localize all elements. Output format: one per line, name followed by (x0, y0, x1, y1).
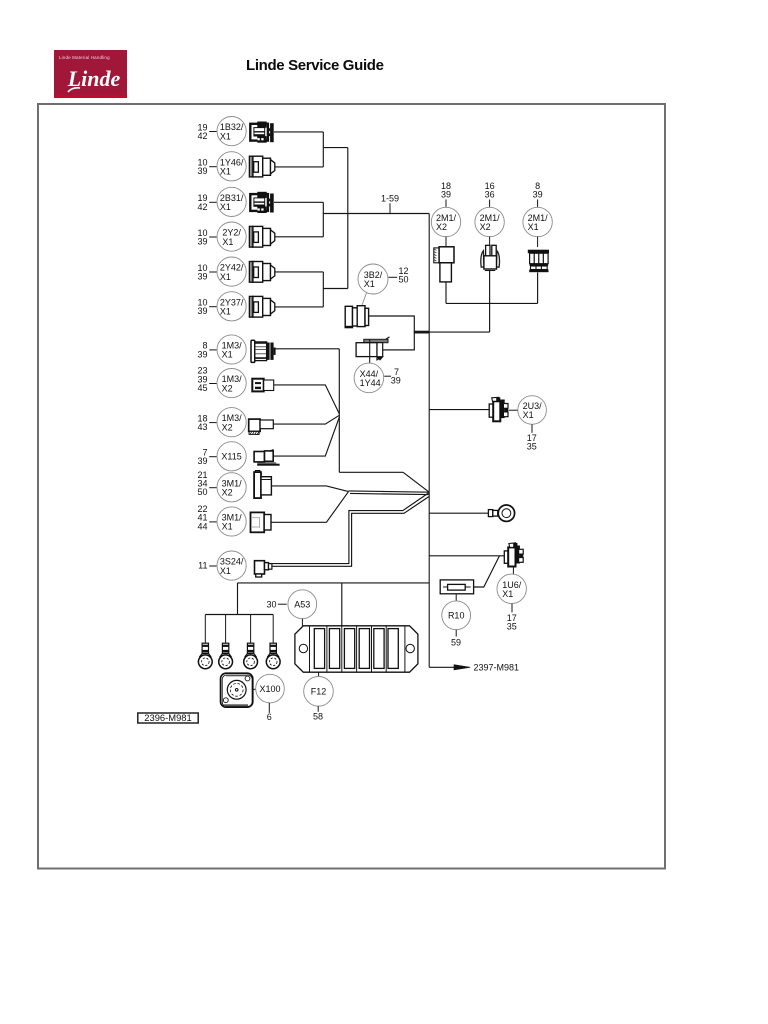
svg-text:39: 39 (197, 272, 207, 282)
wire 3M1/X2 (272, 486, 349, 492)
lamp terminal 3 (244, 643, 258, 668)
connector icon 2Y2/X1 (249, 226, 274, 247)
fuse element 1 (314, 629, 324, 669)
wire drop lamp 4 (272, 615, 274, 644)
svg-text:X2: X2 (222, 488, 233, 498)
connector icon 2M1/X1 right (528, 250, 549, 273)
connector icon 2B31/X1 (250, 192, 273, 213)
connector circle 2Y42/X1 (217, 257, 246, 286)
svg-text:35: 35 (527, 442, 537, 452)
svg-text:6: 6 (267, 712, 272, 722)
svg-text:X1: X1 (220, 167, 231, 177)
fuse element 5 (374, 629, 384, 669)
connector circle X100 (256, 674, 285, 703)
fuse box inner dividers (310, 626, 405, 672)
wire 2U3 icon to circle (508, 409, 518, 411)
left bus vertical (347, 148, 349, 289)
wire 2Y2 to bus (275, 236, 324, 238)
pin numbers for 2M1 #3 (533, 181, 543, 207)
wire drop lamp 2 (225, 615, 227, 644)
connector icon 3M1/X2 (254, 471, 271, 499)
pin number R10 59 (451, 630, 461, 648)
diagram frame (38, 104, 665, 869)
connector circle 1U6/X1 (497, 574, 526, 603)
wire 2M1#2 down (489, 271, 491, 332)
pin numbers for X115 (197, 448, 216, 467)
pin numbers for 2M1 #1 (441, 181, 451, 207)
connector circle 1M3/X2 a (217, 369, 246, 398)
component circle F12 (304, 677, 334, 707)
pin numbers X44 7/39 (384, 367, 401, 386)
svg-text:X1: X1 (220, 272, 231, 282)
connector icon 1Y46/X1 (249, 156, 274, 177)
wire X115 diagonal (273, 417, 340, 456)
harness 3S24 double line (272, 493, 429, 564)
wire 1U6 icon down (512, 567, 514, 575)
svg-text:39: 39 (197, 456, 207, 466)
wire drop to lamp bus (237, 583, 239, 615)
logo Linde script (63, 66, 125, 92)
wire 1Y46 to bus (275, 166, 324, 168)
svg-text:X1: X1 (222, 237, 233, 247)
connector icon X44/1Y44 (356, 337, 389, 363)
svg-text:2397-M981: 2397-M981 (474, 663, 520, 673)
svg-text:X115: X115 (221, 452, 241, 462)
wire bus to 2U3 (429, 409, 489, 411)
fuse element 4 (359, 629, 369, 669)
svg-text:50: 50 (399, 275, 409, 285)
svg-text:39: 39 (197, 349, 207, 359)
svg-text:X2: X2 (222, 422, 233, 432)
trunk horizontal y472 (339, 471, 403, 473)
connector icon 1B32/X1 (250, 122, 273, 143)
leader 3B2 circle to icon (362, 293, 367, 305)
label box 2396-M981 (138, 712, 198, 723)
Linde logo red box (54, 50, 127, 95)
wire 1B32 to bus (274, 131, 323, 133)
wire drop lamp 3 (250, 615, 252, 644)
pin numbers 2U3 17/35 (527, 424, 537, 451)
svg-text:39: 39 (533, 190, 543, 200)
connector icon 2M1/X2 middle (481, 245, 500, 270)
connector icon 3M1/X1 (251, 512, 272, 532)
svg-text:39: 39 (441, 190, 451, 200)
pin numbers for 3S24/X1 (198, 560, 216, 570)
pin numbers 1U6 17/35 (507, 604, 517, 632)
fuse element 2 (329, 629, 339, 669)
connector circle 3M1/X2 (217, 473, 246, 502)
svg-text:X1: X1 (364, 279, 375, 289)
title Linde Service Guide (246, 57, 384, 74)
wire A53 to fuse box (301, 619, 303, 626)
pin numbers for 3M1/X1 (197, 504, 216, 531)
wire y583 horizontal (238, 582, 430, 584)
connector icon 1M3/X1 (251, 340, 276, 362)
svg-text:X2: X2 (436, 222, 447, 232)
wire 2M1 bottom horizontal (446, 302, 538, 304)
harness double line 3M1 to bus (349, 491, 430, 492)
connector icon 2M1/X2 left (434, 247, 454, 282)
connector circle 1Y46/X1 (217, 152, 246, 181)
wire 2Y37 to bus (275, 306, 324, 308)
wire 1M3/X1 to trunk (276, 348, 340, 350)
trunk vertical x339 (338, 349, 340, 473)
wire 2M1#3 down (537, 273, 539, 304)
connector circle 1B32/X1 (217, 117, 246, 146)
svg-text:X2: X2 (222, 383, 233, 393)
connector icon 2Y37/X1 (249, 296, 274, 317)
fuse element 3 (344, 629, 354, 669)
svg-text:39: 39 (197, 166, 207, 176)
pin numbers for 2Y37/X1 (197, 298, 216, 317)
wire 1-59 horizontal (323, 213, 429, 215)
wire X44 to junction (383, 349, 414, 351)
svg-text:A53: A53 (294, 599, 310, 609)
wire circle to icon 2M1 #1 (445, 237, 447, 248)
pin numbers for 1Y46/X1 (197, 158, 216, 177)
connector icon 3B2/X1 (345, 306, 368, 328)
svg-text:X100: X100 (259, 684, 280, 694)
svg-text:1Y44: 1Y44 (360, 378, 381, 388)
pin numbers for 2M1 #2 (485, 181, 495, 207)
connector circle 2M1 #2 (475, 207, 504, 236)
svg-text:39: 39 (197, 237, 207, 247)
wire bus to ring terminal (429, 512, 488, 514)
svg-text:R10: R10 (448, 611, 465, 621)
ring terminal (488, 505, 514, 521)
svg-text:39: 39 (391, 376, 401, 386)
connector circle 3S24/X1 (217, 551, 246, 580)
svg-text:36: 36 (485, 190, 495, 200)
wire R10 down (455, 594, 457, 601)
svg-text:58: 58 (313, 712, 323, 722)
svg-text:X1: X1 (528, 222, 539, 232)
svg-text:X1: X1 (220, 202, 231, 212)
pin number X100 6 (267, 703, 272, 722)
pin numbers for 2B31/X1 (197, 193, 216, 212)
svg-text:X1: X1 (220, 131, 231, 141)
arrow 2397-M981 (454, 663, 519, 673)
connector icon 3S24/X1 (255, 561, 272, 577)
pin numbers for 2Y2/X1 (197, 228, 216, 247)
svg-text:35: 35 (507, 621, 517, 631)
svg-text:30: 30 (266, 599, 276, 609)
connector circle 2B31/X1 (217, 187, 246, 216)
wire drop lamp 1 (204, 615, 206, 644)
svg-text:45: 45 (197, 383, 207, 393)
wire 3B2 to junction (369, 316, 415, 350)
svg-text:F12: F12 (311, 687, 327, 697)
connector circle X115 (217, 442, 246, 471)
Linde logo red underline (54, 95, 127, 98)
pin number F12 58 (313, 706, 323, 721)
svg-text:42: 42 (197, 202, 207, 212)
component circle R10 (442, 601, 471, 630)
wire fuse box to F12 (318, 672, 320, 676)
svg-text:1-59: 1-59 (381, 194, 399, 204)
logo script swoosh (54, 50, 127, 95)
svg-text:X1: X1 (222, 350, 233, 360)
svg-text:X1: X1 (502, 589, 513, 599)
lamp terminal 4 (266, 643, 280, 668)
pin numbers 3B2 12/50 (389, 266, 409, 285)
pin number A53 30 (266, 599, 286, 609)
lamp terminal 2 (219, 643, 233, 668)
lamp bus horizontal (205, 614, 273, 616)
connector circle 3B2/X1 (358, 264, 388, 294)
wire 2Y42 to bus (275, 271, 324, 273)
wire y332 horizontal (429, 331, 489, 333)
connector circle 3M1/X1 (217, 507, 246, 536)
svg-text:2396-M981: 2396-M981 (144, 712, 191, 723)
connector icon 2U3/X1 (489, 397, 508, 421)
svg-text:X1: X1 (523, 410, 534, 420)
fuse box outline (295, 626, 418, 672)
lamp terminal 1 (198, 643, 212, 668)
wire drop to fuse box (341, 583, 343, 626)
connector circle 2Y37/X1 (217, 292, 246, 321)
pin numbers for 3M1/X2 (197, 470, 216, 497)
wire R10 to 1U6 wire (474, 556, 500, 587)
svg-text:X1: X1 (220, 566, 231, 576)
svg-text:X1: X1 (222, 522, 233, 532)
pin numbers for 1M3/X2 b (197, 413, 216, 432)
pin numbers for 1M3/X1 (197, 341, 216, 360)
trunk diagonal to main bus (403, 472, 429, 492)
svg-text:X1: X1 (220, 307, 231, 317)
connector circle 1M3/X1 (217, 335, 246, 364)
wire 2M1#1 down (445, 282, 447, 304)
svg-text:44: 44 (197, 521, 207, 531)
wire 2B31 to bus (274, 201, 323, 203)
connector circle 2U3/X1 (518, 396, 547, 425)
svg-text:42: 42 (197, 131, 207, 141)
wire rows1-2 to left bus (323, 147, 348, 149)
svg-text:X2: X2 (480, 222, 491, 232)
connector circle X44/1Y44 (354, 363, 384, 393)
wire circle to icon 2M1 #2 (489, 237, 491, 248)
main harness bus vertical (428, 214, 430, 668)
wire thick junction segment (414, 331, 429, 334)
svg-text:43: 43 (197, 422, 207, 432)
fuse element 6 (388, 629, 398, 669)
wire bus to arrow (429, 666, 455, 668)
leader X100 (254, 688, 257, 690)
svg-text:59: 59 (451, 637, 461, 647)
wire bus to 1U6 (429, 555, 504, 557)
resistor R10 (440, 580, 473, 594)
wire 3M1/X1 (271, 492, 348, 523)
fuse box mounting holes (299, 644, 414, 652)
logo small text Linde Material Handling (59, 55, 129, 60)
wire joint rows5-6 (322, 272, 324, 307)
node 1-59 label (381, 194, 399, 214)
connector icon X115 (254, 450, 280, 466)
component circle A53 (288, 590, 317, 619)
wire 1M3/X2b diagonal (273, 415, 339, 424)
svg-text:50: 50 (197, 487, 207, 497)
connector circle 1M3/X2 b (217, 408, 246, 437)
connector icon 1M3/X2 b (249, 419, 274, 434)
pin numbers for 1B32/X1 (197, 122, 216, 141)
connector icon 1M3/X2 a (252, 379, 273, 392)
connector icon 2Y42/X1 (249, 262, 274, 283)
connector icon X100 (221, 673, 253, 707)
wire 1M3/X2a diagonal (274, 385, 340, 414)
connector circle 2M1 #3 (523, 207, 552, 236)
connector icon 1U6/X1 (504, 543, 523, 567)
svg-text:39: 39 (197, 306, 207, 316)
svg-text:11: 11 (198, 560, 207, 570)
connector circle 2Y2/X1 (217, 222, 246, 251)
pin numbers for 2Y42/X1 (197, 263, 216, 282)
wire rows5-6 to left bus (323, 288, 348, 290)
wire joint rows3-4 (322, 202, 324, 237)
connector circle 2M1 #1 (431, 207, 460, 236)
wire joint rows1-2 (322, 132, 324, 167)
pin numbers for 1M3/X2 a (197, 366, 216, 393)
wire circle to icon 2M1 #3 (537, 237, 539, 248)
